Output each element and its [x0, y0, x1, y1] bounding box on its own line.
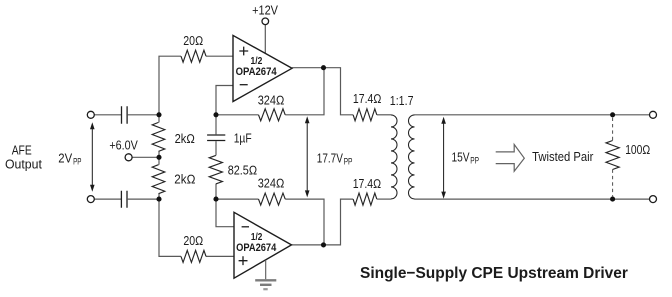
wire 324Ω top to output node — [285, 68, 324, 115]
capacitor C2 input bottom — [121, 191, 127, 208]
resistor 82.5Ω — [209, 155, 222, 184]
resistor 2kΩ bottom — [152, 165, 165, 194]
junction bias node — [156, 155, 161, 160]
svg-text:2kΩ: 2kΩ — [175, 132, 195, 146]
svg-text:20Ω: 20Ω — [183, 34, 203, 48]
svg-text:Single−Supply CPE Upstream Dri: Single−Supply CPE Upstream Driver — [360, 265, 628, 282]
svg-text:324Ω: 324Ω — [258, 94, 285, 108]
svg-text:1µF: 1µF — [234, 131, 252, 145]
junction 100Ω top — [610, 112, 615, 117]
svg-text:PP: PP — [73, 156, 81, 166]
block arrow to twisted pair — [496, 145, 525, 172]
measure arrow 17.7Vpp — [305, 116, 310, 197]
wire dashed 100Ω top lead — [612, 118, 614, 141]
svg-text:100Ω: 100Ω — [625, 143, 650, 157]
terminal output bottom — [650, 196, 657, 203]
capacitor C1 input top — [122, 106, 128, 123]
wire C3 to 82.5Ω — [215, 141, 217, 155]
junction node C — [213, 197, 218, 202]
svg-text:324Ω: 324Ω — [258, 177, 285, 191]
svg-text:Output: Output — [5, 158, 42, 172]
transformer T1 primary winding — [391, 115, 397, 199]
svg-text:OPA2674: OPA2674 — [236, 242, 276, 254]
svg-text:17.4Ω: 17.4Ω — [353, 92, 382, 106]
wire bottom terminal to C2 — [94, 198, 121, 200]
svg-text:2kΩ: 2kΩ — [174, 173, 195, 187]
svg-text:PP: PP — [344, 156, 353, 166]
wire +6.0V terminal to bias node — [132, 156, 159, 158]
resistor 20Ω bottom — [181, 250, 206, 262]
measure arrow 2Vpp — [90, 122, 95, 191]
svg-text:AFE: AFE — [12, 144, 32, 158]
junction U1 output node — [321, 65, 326, 70]
terminal +12V — [262, 18, 269, 25]
wire 20Ω bottom to U2 + input — [206, 255, 234, 257]
resistor 2kΩ top — [152, 122, 165, 151]
wire +12V supply to U1 — [264, 25, 266, 54]
resistor 324Ω top — [259, 109, 286, 121]
junction node A — [156, 112, 161, 117]
svg-text:+6.0V: +6.0V — [109, 139, 138, 153]
resistor 324Ω bottom — [259, 193, 286, 205]
U2 minus input symbol — [242, 226, 249, 228]
junction node D — [156, 197, 161, 202]
svg-text:1:1.7: 1:1.7 — [390, 94, 414, 108]
op-amp U2 bottom 1/2 OPA2674 — [234, 212, 292, 278]
svg-text:17.7V: 17.7V — [317, 152, 344, 166]
wire 324Ω bottom to output node bottom — [285, 199, 324, 245]
resistor 20Ω top — [181, 50, 206, 62]
measure arrow 15Vpp — [441, 117, 446, 199]
U1 plus input symbol — [239, 47, 248, 56]
wire node B to C3 1uF — [215, 115, 217, 135]
resistor 17.4Ω bottom — [353, 193, 377, 205]
svg-text:17.4Ω: 17.4Ω — [353, 177, 382, 191]
svg-text:82.5Ω: 82.5Ω — [228, 164, 258, 178]
wire node D down to 20Ω bottom — [159, 199, 181, 256]
wire 17.4Ω top to transformer primary — [377, 114, 391, 116]
wire 2kΩ bottom to node D — [158, 194, 160, 199]
U1 minus input symbol — [240, 84, 248, 86]
op-amp U1 top 1/2 OPA2674 — [233, 35, 292, 101]
wire dashed 100Ω bottom lead — [612, 170, 614, 197]
wire node B to R-324 top — [216, 114, 259, 116]
ground — [255, 260, 276, 289]
wire transformer secondary bottom to output terminal — [415, 198, 650, 200]
wire U1 - input to node B — [216, 86, 233, 115]
wire C2 to node D — [128, 198, 159, 200]
terminal output top — [650, 111, 657, 118]
svg-text:2V: 2V — [58, 151, 72, 165]
terminal +6.0V — [125, 154, 132, 161]
svg-text:+12V: +12V — [252, 3, 278, 17]
resistor 17.4Ω top — [353, 109, 377, 121]
wire node A to 2kΩ top — [158, 115, 160, 123]
junction 100Ω bottom — [610, 197, 615, 202]
svg-text:1/2: 1/2 — [251, 56, 263, 67]
U2 plus input symbol — [239, 256, 248, 265]
wire C1 to node A, up left riser to 20Ω — [128, 56, 181, 115]
wire 20Ω to op-amp U1 + input — [206, 55, 233, 57]
svg-text:20Ω: 20Ω — [183, 234, 203, 248]
wire transformer secondary top to output terminal — [415, 114, 650, 116]
wire 17.4Ω bottom to transformer primary — [377, 198, 391, 200]
terminal input bottom — [87, 196, 94, 203]
wire U1 output to 17.4Ω top — [292, 68, 353, 115]
capacitor C3 1uF — [207, 135, 225, 141]
junction U2 output node — [321, 242, 326, 247]
svg-text:Twisted Pair: Twisted Pair — [532, 150, 593, 164]
wire U2 - input to node C — [216, 199, 234, 227]
transformer T1 secondary winding — [409, 115, 415, 199]
wire U2 output to 17.4Ω bottom — [292, 199, 354, 245]
svg-text:OPA2674: OPA2674 — [236, 66, 277, 78]
resistor 100Ω — [606, 141, 619, 170]
wire 2kΩ top to bias node to 2kΩ bottom — [158, 151, 160, 164]
wire node C to 324Ω bottom — [216, 198, 259, 200]
wire top terminal to C1 — [94, 114, 121, 116]
svg-text:PP: PP — [470, 155, 479, 165]
wire 82.5Ω to node C — [215, 184, 217, 199]
svg-text:15V: 15V — [452, 151, 471, 165]
junction node B — [213, 112, 218, 117]
terminal input top — [87, 111, 94, 118]
